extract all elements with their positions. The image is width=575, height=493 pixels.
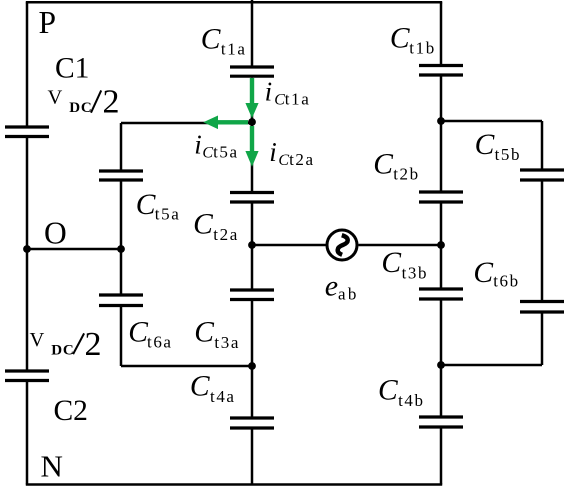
- svg-text:C: C: [190, 371, 210, 403]
- svg-text:C: C: [202, 144, 213, 161]
- svg-text:t2b: t2b: [393, 165, 420, 184]
- capacitor Ct1b: [419, 66, 463, 76]
- svg-text:C: C: [473, 257, 493, 289]
- label Ct4b: [378, 375, 425, 410]
- svg-text:C1: C1: [55, 53, 89, 85]
- svg-text:C: C: [128, 316, 148, 348]
- capacitor C2: [5, 371, 49, 381]
- wire phase-b leg bottom segment: [440, 429, 443, 485]
- svg-text:C: C: [390, 23, 410, 55]
- wire Ct6a branch lower segment: [120, 307, 123, 366]
- svg-text:i: i: [194, 129, 202, 159]
- label VDC/2 lower: [30, 326, 102, 363]
- svg-text:C: C: [378, 375, 398, 407]
- label Ct1b: [390, 23, 436, 58]
- wire phase-a leg segment Ct1a-Ct2a: [251, 78, 254, 191]
- svg-text:C: C: [193, 209, 213, 241]
- wire node O to Ct5a branch: [27, 248, 121, 251]
- node Ct1b junction dot: [437, 117, 445, 125]
- svg-text:t2a: t2a: [289, 150, 315, 169]
- wire left rail lower segment: [26, 382, 29, 485]
- wire phase-a leg top segment: [251, 0, 254, 66]
- node Ct4b junction dot: [437, 361, 445, 369]
- svg-text:t5a: t5a: [213, 142, 239, 161]
- wire source eab to phase-b leg: [359, 244, 442, 247]
- capacitor Ct2b: [419, 192, 463, 202]
- label Ct4a: [190, 371, 236, 406]
- wire Ct6b branch lower segment: [541, 314, 544, 366]
- label Ct1a: [201, 24, 247, 59]
- svg-text:i: i: [265, 76, 273, 106]
- svg-text:t6b: t6b: [493, 272, 520, 291]
- capacitor Ct4b: [419, 417, 463, 427]
- wire node A to Ct5a branch: [121, 122, 252, 125]
- svg-text:P: P: [39, 5, 57, 40]
- svg-text:t5a: t5a: [155, 204, 181, 223]
- wire Ct6b branch to phase-b leg: [441, 364, 542, 367]
- label Ct5b: [475, 129, 522, 164]
- label iCt2a: [269, 137, 314, 169]
- svg-text:t1a: t1a: [285, 89, 311, 108]
- node O dot: [23, 245, 31, 253]
- svg-text:t1a: t1a: [221, 40, 247, 59]
- node O-branch dot: [117, 245, 125, 253]
- capacitor Ct3b: [419, 289, 463, 299]
- wire phase-a leg bottom segment: [251, 430, 254, 485]
- label VDC/2 upper: [48, 83, 120, 120]
- label iCt5a: [194, 129, 238, 161]
- wire phase-b leg to Ct5b branch: [441, 120, 542, 123]
- svg-text:DC: DC: [51, 343, 74, 359]
- capacitor C1: [5, 127, 49, 137]
- wire Ct6a branch to phase-a leg: [121, 365, 252, 368]
- svg-text:i: i: [269, 137, 277, 167]
- label eab: [325, 270, 359, 304]
- wire phase-a leg segment Ct2a-Ct3a: [251, 204, 254, 289]
- label Ct3a: [194, 317, 240, 352]
- wire top border: [26, 1, 442, 4]
- wire Ct5b branch upper segment: [541, 121, 544, 169]
- svg-text:C: C: [201, 24, 221, 56]
- label Ct2a: [193, 209, 239, 244]
- svg-text:C: C: [278, 152, 289, 169]
- capacitor Ct3a: [230, 290, 274, 300]
- node phase-b output dot: [437, 241, 445, 249]
- svg-text:C: C: [381, 247, 401, 279]
- label iCt1a: [265, 76, 311, 108]
- wire phase-b leg segment Ct2b-Ct3b: [440, 204, 443, 288]
- svg-text:t5b: t5b: [495, 145, 522, 164]
- capacitor Ct5a: [99, 171, 143, 180]
- capacitor Ct4a: [230, 418, 274, 428]
- wire Ct5b-Ct6b branch middle segment: [541, 182, 544, 301]
- capacitor Ct5b: [520, 170, 564, 180]
- capacitor Ct2a: [230, 193, 274, 203]
- svg-text:C: C: [274, 91, 285, 108]
- svg-text:2: 2: [103, 83, 120, 120]
- wire bottom border: [26, 483, 442, 486]
- label Ct3b: [381, 247, 428, 282]
- svg-text:O: O: [44, 216, 67, 251]
- svg-text:ab: ab: [338, 284, 359, 303]
- svg-text:V: V: [48, 87, 63, 109]
- svg-text:V: V: [30, 329, 45, 351]
- wire phase-a leg segment Ct3a-Ct4a: [251, 301, 254, 417]
- label VDC/2 lower slash: [73, 333, 84, 354]
- svg-text:t2a: t2a: [213, 225, 239, 244]
- capacitor Ct6b: [520, 302, 564, 313]
- label VDC/2 upper slash: [91, 90, 101, 112]
- wire Ct5a branch upper segment: [120, 123, 123, 170]
- svg-text:DC: DC: [69, 100, 92, 116]
- svg-text:e: e: [325, 270, 338, 303]
- label Ct6b: [473, 257, 519, 291]
- svg-text:t6a: t6a: [147, 333, 173, 352]
- wire phase-b leg segment Ct3b-Ct4b: [440, 301, 443, 416]
- svg-text:t3b: t3b: [402, 264, 429, 283]
- svg-text:2: 2: [85, 326, 102, 363]
- svg-text:C2: C2: [54, 395, 88, 427]
- svg-text:t3a: t3a: [214, 333, 240, 352]
- label Ct2b: [373, 148, 420, 183]
- node Ct4a junction dot: [248, 362, 256, 370]
- wire phase-a leg to source eab: [252, 244, 326, 247]
- svg-text:C: C: [194, 317, 214, 349]
- current arrow iCt5a: [203, 116, 248, 130]
- svg-text:C: C: [136, 189, 156, 221]
- node phase-a output dot: [248, 241, 256, 249]
- capacitor Ct1a: [230, 67, 274, 76]
- current arrow iCt2a: [245, 126, 258, 167]
- wire phase-b leg segment Ct1b-Ct2b: [440, 77, 443, 191]
- svg-text:C: C: [475, 129, 495, 161]
- svg-text:N: N: [41, 449, 63, 484]
- node A junction dot: [248, 118, 256, 126]
- wire Ct5a-Ct6a branch middle segment: [120, 182, 123, 294]
- wire left rail middle segment: [26, 138, 29, 370]
- svg-text:t4b: t4b: [398, 391, 425, 410]
- label Ct5a: [136, 189, 181, 223]
- svg-text:C: C: [373, 148, 393, 180]
- wire left rail upper segment: [26, 2, 29, 125]
- AC source eab sine squiggle: [338, 235, 348, 255]
- capacitor Ct6a: [99, 295, 143, 306]
- label Ct6a: [128, 316, 172, 351]
- current arrow iCt1a: [245, 78, 258, 118]
- svg-text:t4a: t4a: [210, 387, 236, 406]
- AC source eab circle: [327, 230, 357, 260]
- wire phase-b leg top segment: [440, 2, 443, 64]
- svg-text:t1b: t1b: [409, 39, 436, 58]
